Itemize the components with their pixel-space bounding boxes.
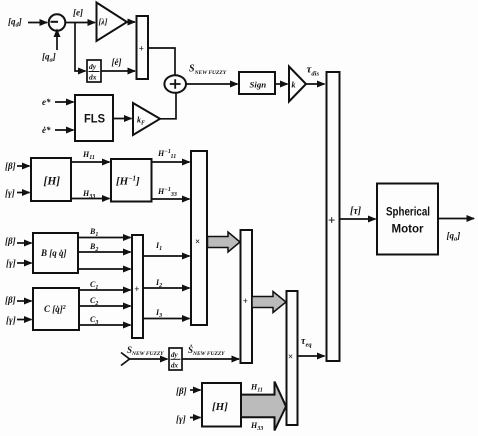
svg-text:[ė]: [ė] bbox=[112, 57, 122, 67]
wire gamma into H bottom bbox=[190, 417, 201, 419]
wire e* to FLS bbox=[55, 101, 74, 103]
svg-text:H11: H11 bbox=[250, 383, 263, 394]
svg-text:τdis: τdis bbox=[307, 64, 320, 78]
svg-text:[qa]: [qa] bbox=[447, 231, 461, 243]
wire qa up into summing junction bbox=[56, 30, 58, 51]
node [beta] label (H top) bbox=[5, 161, 16, 171]
wire plus circle to Sign bbox=[185, 83, 238, 85]
svg-text:H−133: H−133 bbox=[157, 187, 177, 198]
node H11 label bbox=[82, 150, 95, 161]
wire B2 to sum rect bbox=[78, 251, 131, 253]
svg-text:[e]: [e] bbox=[73, 8, 83, 18]
wire beta into H bbox=[17, 165, 30, 167]
sum block (vertical, top) bbox=[137, 16, 149, 79]
block B [q qdot] bbox=[33, 233, 78, 273]
wire B3 to sum rect bbox=[78, 268, 131, 270]
node Sdot_NEWFUZZY label bbox=[188, 345, 225, 357]
node [gamma] label (H bottom) bbox=[176, 414, 186, 424]
block [H] top bbox=[31, 158, 71, 201]
wire e branch down to dy/dx bbox=[75, 23, 86, 72]
node I1 label bbox=[155, 241, 162, 252]
wire gamma into C bbox=[17, 319, 32, 321]
svg-text:ṠNEW FUZZY: ṠNEW FUZZY bbox=[188, 345, 225, 357]
big block arrow H bottom to times2 rect bbox=[241, 382, 286, 431]
node H33 label (bottom) bbox=[250, 421, 263, 432]
node [beta] label (C block) bbox=[5, 295, 16, 305]
node [gamma] label (H top) bbox=[5, 188, 15, 198]
node S_NEWFUZZY label bbox=[189, 64, 227, 77]
final sum block (vertical tall) bbox=[327, 72, 340, 361]
wire dy/dx to sum rect bbox=[101, 70, 135, 72]
svg-text:+: + bbox=[139, 44, 144, 54]
wire H33 to Hinv bbox=[71, 198, 110, 200]
svg-text:[qa]: [qa] bbox=[42, 52, 56, 64]
node I2 label bbox=[155, 278, 162, 289]
svg-text:kF: kF bbox=[137, 116, 145, 127]
node Hinv33 label bbox=[157, 187, 177, 198]
sum block (vertical, middle) bbox=[132, 235, 143, 338]
svg-text:[γ]: [γ] bbox=[6, 258, 16, 268]
wire H11 to Hinv bbox=[71, 161, 110, 163]
svg-text:H−111: H−111 bbox=[157, 149, 176, 160]
wire qd to summing junction bbox=[28, 22, 47, 24]
svg-text:SNEW FUZZY: SNEW FUZZY bbox=[127, 345, 164, 357]
svg-text:I3: I3 bbox=[155, 308, 162, 319]
wire gamma into H bbox=[17, 192, 30, 194]
wire sum rect to plus circle bbox=[148, 48, 175, 76]
wire FLS to kF triangle bbox=[113, 118, 132, 120]
wire C1 to sum rect bbox=[79, 289, 131, 291]
node B1 label bbox=[89, 227, 98, 238]
wire C3 to sum rect bbox=[79, 324, 131, 326]
svg-text:SNEW FUZZY: SNEW FUZZY bbox=[189, 64, 227, 77]
FLS block bbox=[75, 95, 113, 141]
wire k to final sum rect bbox=[306, 83, 325, 85]
svg-text:H11: H11 bbox=[82, 150, 95, 161]
node [beta] label (H bottom) bbox=[176, 386, 187, 396]
wire Sign to k triangle bbox=[275, 83, 288, 85]
svg-text:[qd]: [qd] bbox=[8, 17, 22, 29]
svg-text:[H]: [H] bbox=[44, 176, 61, 188]
svg-text:[λ]: [λ] bbox=[99, 18, 108, 27]
wire beta into H bottom bbox=[190, 389, 201, 391]
svg-text:Sign: Sign bbox=[250, 80, 267, 90]
wire C2 to sum rect bbox=[79, 305, 131, 307]
svg-text:[γ]: [γ] bbox=[176, 414, 186, 424]
node H11 label (bottom) bbox=[250, 383, 263, 394]
block arrow sum2 rect to times2 rect bbox=[252, 292, 286, 313]
svg-text:[β]: [β] bbox=[5, 295, 16, 305]
wire beta into C bbox=[17, 300, 32, 302]
node I3 label bbox=[155, 308, 162, 319]
block arrow times rect to sum2 rect bbox=[208, 232, 241, 252]
node [tau] label bbox=[350, 206, 362, 217]
node [e] label bbox=[73, 8, 83, 18]
svg-text:Spherical: Spherical bbox=[386, 205, 430, 219]
block [H^-1] bbox=[111, 159, 152, 202]
svg-text:FLS: FLS bbox=[84, 112, 105, 126]
product block (vertical, times) bbox=[191, 151, 207, 325]
node [q_d] input label bbox=[8, 17, 22, 29]
node e* label bbox=[42, 97, 51, 107]
wire e to lambda triangle bbox=[66, 22, 96, 24]
node S_NEWFUZZY label (bottom) bbox=[127, 345, 164, 357]
wire B1 to sum rect bbox=[78, 237, 131, 239]
svg-text:×: × bbox=[195, 237, 200, 247]
node Hinv11 label bbox=[157, 149, 176, 160]
svg-text:[β]: [β] bbox=[5, 236, 16, 246]
summing junction circle bbox=[49, 14, 66, 31]
svg-text:B [q q̇]: B [q q̇] bbox=[40, 248, 67, 258]
block [H] bottom bbox=[202, 383, 241, 427]
svg-text:τeq: τeq bbox=[301, 336, 312, 349]
svg-text:dy: dy bbox=[171, 351, 179, 359]
wire final sum to motor bbox=[340, 218, 376, 220]
svg-text:e*: e* bbox=[42, 97, 51, 107]
node H33 label bbox=[82, 189, 95, 200]
gain lambda triangle bbox=[97, 3, 128, 42]
svg-text:[β]: [β] bbox=[176, 386, 187, 396]
wire beta into B bbox=[17, 242, 32, 244]
block Spherical Motor bbox=[377, 184, 438, 255]
svg-text:B1: B1 bbox=[89, 227, 98, 238]
wire edot* to FLS bbox=[55, 129, 74, 131]
svg-text:+: + bbox=[328, 213, 335, 228]
node tau_dis label bbox=[307, 64, 320, 78]
wire S to dy/dx bottom bbox=[130, 358, 168, 360]
derivative block dy/dx (top) bbox=[87, 60, 101, 82]
wire kF to plus circle bbox=[160, 92, 176, 119]
svg-text:[H−1]: [H−1] bbox=[116, 175, 140, 188]
wire motor output bbox=[438, 218, 474, 220]
node [gamma] label (C block) bbox=[6, 315, 16, 325]
wire Hinv33 to times rect bbox=[152, 198, 190, 200]
node C2 label bbox=[90, 296, 98, 307]
svg-text:[τ]: [τ] bbox=[350, 206, 362, 217]
wire I3 to times rect bbox=[143, 318, 190, 320]
svg-text:+: + bbox=[134, 284, 139, 294]
svg-text:Motor: Motor bbox=[392, 222, 424, 236]
node [gamma] label (B block) bbox=[6, 258, 16, 268]
plus circle junction bbox=[164, 75, 186, 93]
svg-text:+: + bbox=[243, 296, 248, 306]
derivative block dy/dx (bottom) bbox=[169, 348, 182, 370]
node [edot] label bbox=[112, 57, 122, 67]
wire Sdot to sum2 rect bbox=[182, 358, 239, 360]
sum block 2 (vertical) bbox=[241, 230, 253, 363]
gain k triangle bbox=[289, 67, 306, 102]
gain kF triangle bbox=[133, 103, 160, 135]
svg-text:[γ]: [γ] bbox=[6, 315, 16, 325]
svg-text:dx: dx bbox=[89, 73, 97, 82]
wire Hinv11 to times rect bbox=[152, 161, 190, 163]
svg-text:dy: dy bbox=[89, 62, 97, 71]
svg-text:C [q̇]2: C [q̇]2 bbox=[44, 304, 66, 314]
Sign block bbox=[239, 72, 275, 94]
wire tau_eq to final sum rect bbox=[298, 355, 325, 357]
wire gamma into B bbox=[17, 262, 32, 264]
node edot* label bbox=[42, 125, 51, 135]
node tau_eq label bbox=[301, 336, 312, 349]
node [beta] label (B block) bbox=[5, 236, 16, 246]
wire I1 to times rect bbox=[143, 255, 190, 257]
node [q_a] feedback label bbox=[42, 52, 56, 64]
svg-text:×: × bbox=[288, 352, 293, 362]
svg-text:ė*: ė* bbox=[42, 125, 51, 135]
block C [qdot]^2 bbox=[33, 288, 79, 330]
svg-text:k: k bbox=[292, 81, 296, 90]
wire I2 to times rect bbox=[143, 287, 190, 289]
product block 2 (vertical, times) bbox=[287, 291, 298, 425]
svg-text:I1: I1 bbox=[155, 241, 162, 252]
node B2 label bbox=[89, 242, 98, 253]
svg-text:dx: dx bbox=[171, 362, 179, 370]
node C1 label bbox=[90, 280, 98, 291]
feedback tag for S_NEWFUZZY bbox=[121, 353, 130, 366]
svg-text:[γ]: [γ] bbox=[5, 188, 15, 198]
node [q_a] output label bbox=[447, 231, 461, 243]
svg-text:H33: H33 bbox=[250, 421, 263, 432]
svg-text:[H]: [H] bbox=[212, 401, 228, 413]
wire lambda to sum rect bbox=[127, 21, 135, 23]
svg-text:[β]: [β] bbox=[5, 161, 16, 171]
node C3 label bbox=[90, 315, 98, 326]
